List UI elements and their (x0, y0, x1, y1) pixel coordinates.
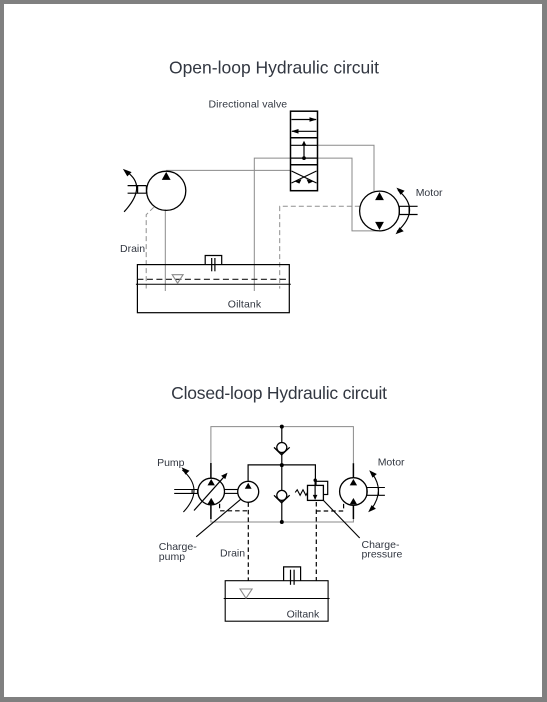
valve position 3: crossed flow arrows (292, 171, 317, 183)
drain motor2/relief (dashed) (316, 504, 343, 511)
pump2 triangle bottom (208, 498, 215, 504)
drain pump2/chargepump (dashed) (220, 504, 249, 511)
drain line pump1 case (dashed) (146, 207, 154, 288)
svg-text:Drain: Drain (120, 243, 145, 255)
motor1 shaft (399, 206, 417, 214)
svg-text:pump: pump (159, 551, 185, 563)
tank2 level symbol (240, 589, 252, 598)
pump2 variable displacement arrow (194, 475, 226, 510)
tank2 breather (284, 567, 301, 585)
svg-text:Motor: Motor (416, 187, 443, 199)
motor2 (340, 478, 368, 506)
pump2 top port stub (210, 463, 212, 479)
junction top rail (280, 425, 284, 429)
wire valve T port to tank (254, 158, 290, 291)
oil tank 1 (137, 265, 289, 313)
pump1 outlet triangle (162, 172, 171, 180)
svg-text:Oiltank: Oiltank (287, 609, 320, 621)
check valve CV1 (274, 443, 290, 455)
valve position 1: parallel flow arrows (292, 120, 317, 132)
leader to Charge-pressure (323, 500, 359, 538)
motor2 bottom port stub (352, 505, 354, 519)
svg-text:Oiltank: Oiltank (228, 299, 262, 311)
svg-text:Drain: Drain (220, 547, 245, 559)
svg-text:Directional valve: Directional valve (209, 99, 288, 111)
top rail wire (211, 427, 354, 464)
charge pump triangle (245, 483, 252, 489)
bottom rail wire (211, 519, 354, 522)
tank1 internal drain gallery (dashed) (137, 278, 289, 280)
pump2 shaft (174, 490, 198, 494)
motor1 triangle bottom (375, 222, 384, 230)
junction charge line (280, 463, 284, 467)
pump2 rotation arrow (182, 470, 194, 512)
svg-text:pressure: pressure (362, 549, 403, 561)
wire pump1 outlet to valve P port (166, 169, 290, 171)
pump1 rotation arrow (124, 172, 137, 212)
coupling pump2-chargepump (225, 490, 238, 494)
wire valve B port to motor1 bottom (318, 158, 379, 231)
motor1 rotation arrows (397, 190, 409, 231)
leader to Charge-pump (196, 499, 241, 537)
svg-text:Open-loop Hydraulic circuit: Open-loop Hydraulic circuit (169, 58, 379, 78)
oil tank 2 (225, 581, 328, 622)
directional valve body (291, 111, 318, 191)
motor1 (360, 191, 400, 231)
motor2 triangle bottom (350, 498, 357, 504)
tank2 oil level line (224, 598, 330, 600)
motor2 top port stub (352, 463, 354, 478)
pump2 triangle top (208, 479, 215, 485)
svg-text:Pump: Pump (157, 457, 185, 469)
center make-up line (281, 427, 283, 522)
svg-text:Closed-loop Hydraulic circuit: Closed-loop Hydraulic circuit (171, 383, 387, 403)
motor1 triangle top (375, 192, 384, 200)
wire pump1 suction from tank (164, 210, 166, 292)
tank1 oil level line (136, 283, 291, 285)
pump2 (variable over-center pump) (198, 478, 225, 505)
charge supply line (248, 465, 315, 481)
motor2 shaft (367, 488, 385, 496)
tank1 level symbol (172, 275, 183, 284)
valve position 2 (center): ports with pilot connector (291, 145, 318, 158)
charge pump (238, 481, 259, 502)
relief valve (charge pressure) (295, 479, 328, 501)
drain line motor1 case (dashed) (280, 206, 360, 288)
motor2 rotation arrows (371, 474, 378, 510)
svg-text:Motor: Motor (378, 456, 405, 468)
pump1 (variable pump) (147, 171, 186, 210)
motor2 triangle top (350, 479, 357, 485)
check valve CV2 (274, 490, 290, 502)
tank1 breather (205, 256, 222, 272)
pump1 shaft (128, 186, 147, 194)
wire valve A port to motor1 top (318, 145, 375, 191)
pump2 bottom port stub (210, 504, 212, 519)
junction bottom rail (280, 520, 284, 524)
